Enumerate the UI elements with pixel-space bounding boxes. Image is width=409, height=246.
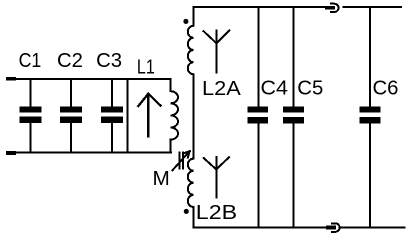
phase dot L2B <box>184 209 189 214</box>
antenna mark on L2A <box>204 31 230 73</box>
wire: L1 left side vertical <box>126 79 128 153</box>
svg-text:M: M <box>153 168 170 190</box>
wire: top rail right end <box>344 6 402 8</box>
capacitor C1 <box>19 79 41 153</box>
wire: bottom rail right end <box>341 227 405 229</box>
connector top: female jack <box>331 4 339 12</box>
capacitor C5 <box>283 7 304 228</box>
wire: top rail right (to connector) <box>194 6 325 8</box>
terminal stub top-left <box>6 77 16 81</box>
connector bottom: female jack <box>332 223 340 232</box>
coupling arrow M <box>172 151 189 170</box>
wire: bottom rail left <box>16 152 171 154</box>
connector top: male pin <box>325 6 335 10</box>
inductor L1 (loop with winding on right side) <box>127 79 178 153</box>
wire: top rail left <box>16 78 170 80</box>
inductor L2A / L2B winding vertical <box>188 7 194 228</box>
L1 winding <box>170 79 178 153</box>
L1 tuning arrow <box>138 94 160 137</box>
capacitor C4 <box>247 7 268 228</box>
capacitor C2 <box>60 79 82 153</box>
svg-text:C2: C2 <box>57 50 83 72</box>
svg-text:L1: L1 <box>137 56 155 78</box>
capacitor C3 <box>101 79 123 153</box>
coupling bars (M) <box>179 153 181 169</box>
capacitor C6 <box>360 7 381 228</box>
svg-text:C1: C1 <box>19 50 42 72</box>
antenna mark on L2B <box>204 157 229 198</box>
svg-text:L2B: L2B <box>196 202 237 224</box>
wire: bottom rail right (to connector) <box>194 227 326 229</box>
svg-text:C3: C3 <box>96 50 122 72</box>
svg-text:C6: C6 <box>373 78 399 100</box>
svg-text:C4: C4 <box>261 78 288 100</box>
connector bottom: male pin <box>326 226 336 230</box>
svg-text:C5: C5 <box>297 78 323 100</box>
svg-text:L2A: L2A <box>202 78 241 100</box>
phase dot L2A <box>183 19 188 24</box>
terminal stub bottom-left <box>6 151 16 155</box>
